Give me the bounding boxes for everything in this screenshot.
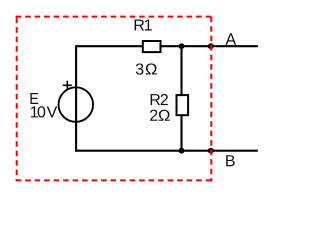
plus polarity mark [63,84,72,86]
resistor R2 body [177,95,189,115]
junction node R1-R2 top [179,43,185,49]
label R2 [151,94,168,105]
boundary dashed box right [210,17,212,182]
resistor R1 body [143,41,161,52]
label B [226,155,235,166]
label 3 ohm value [136,63,157,74]
wire left vertical through source [75,45,77,152]
wire top horizontal left of R1 [76,45,143,47]
label A [226,33,237,45]
wire R2 bottom vertical [180,115,182,151]
label E [30,93,38,104]
boundary dashed box top [16,16,212,18]
label 2 ohm value [150,110,170,121]
terminal node B [208,148,214,154]
terminal node A [208,43,214,49]
wire bottom horizontal to terminal B [76,150,258,152]
label R1 [135,19,152,30]
wire R2 top vertical [180,46,182,95]
label 10V value [31,106,57,117]
boundary dashed box left [16,18,18,181]
junction node R2 bottom [179,148,185,154]
wire top horizontal right of R1 to terminal A [161,45,258,47]
voltage source E1 circle [59,87,94,122]
boundary dashed box bottom [16,179,212,181]
